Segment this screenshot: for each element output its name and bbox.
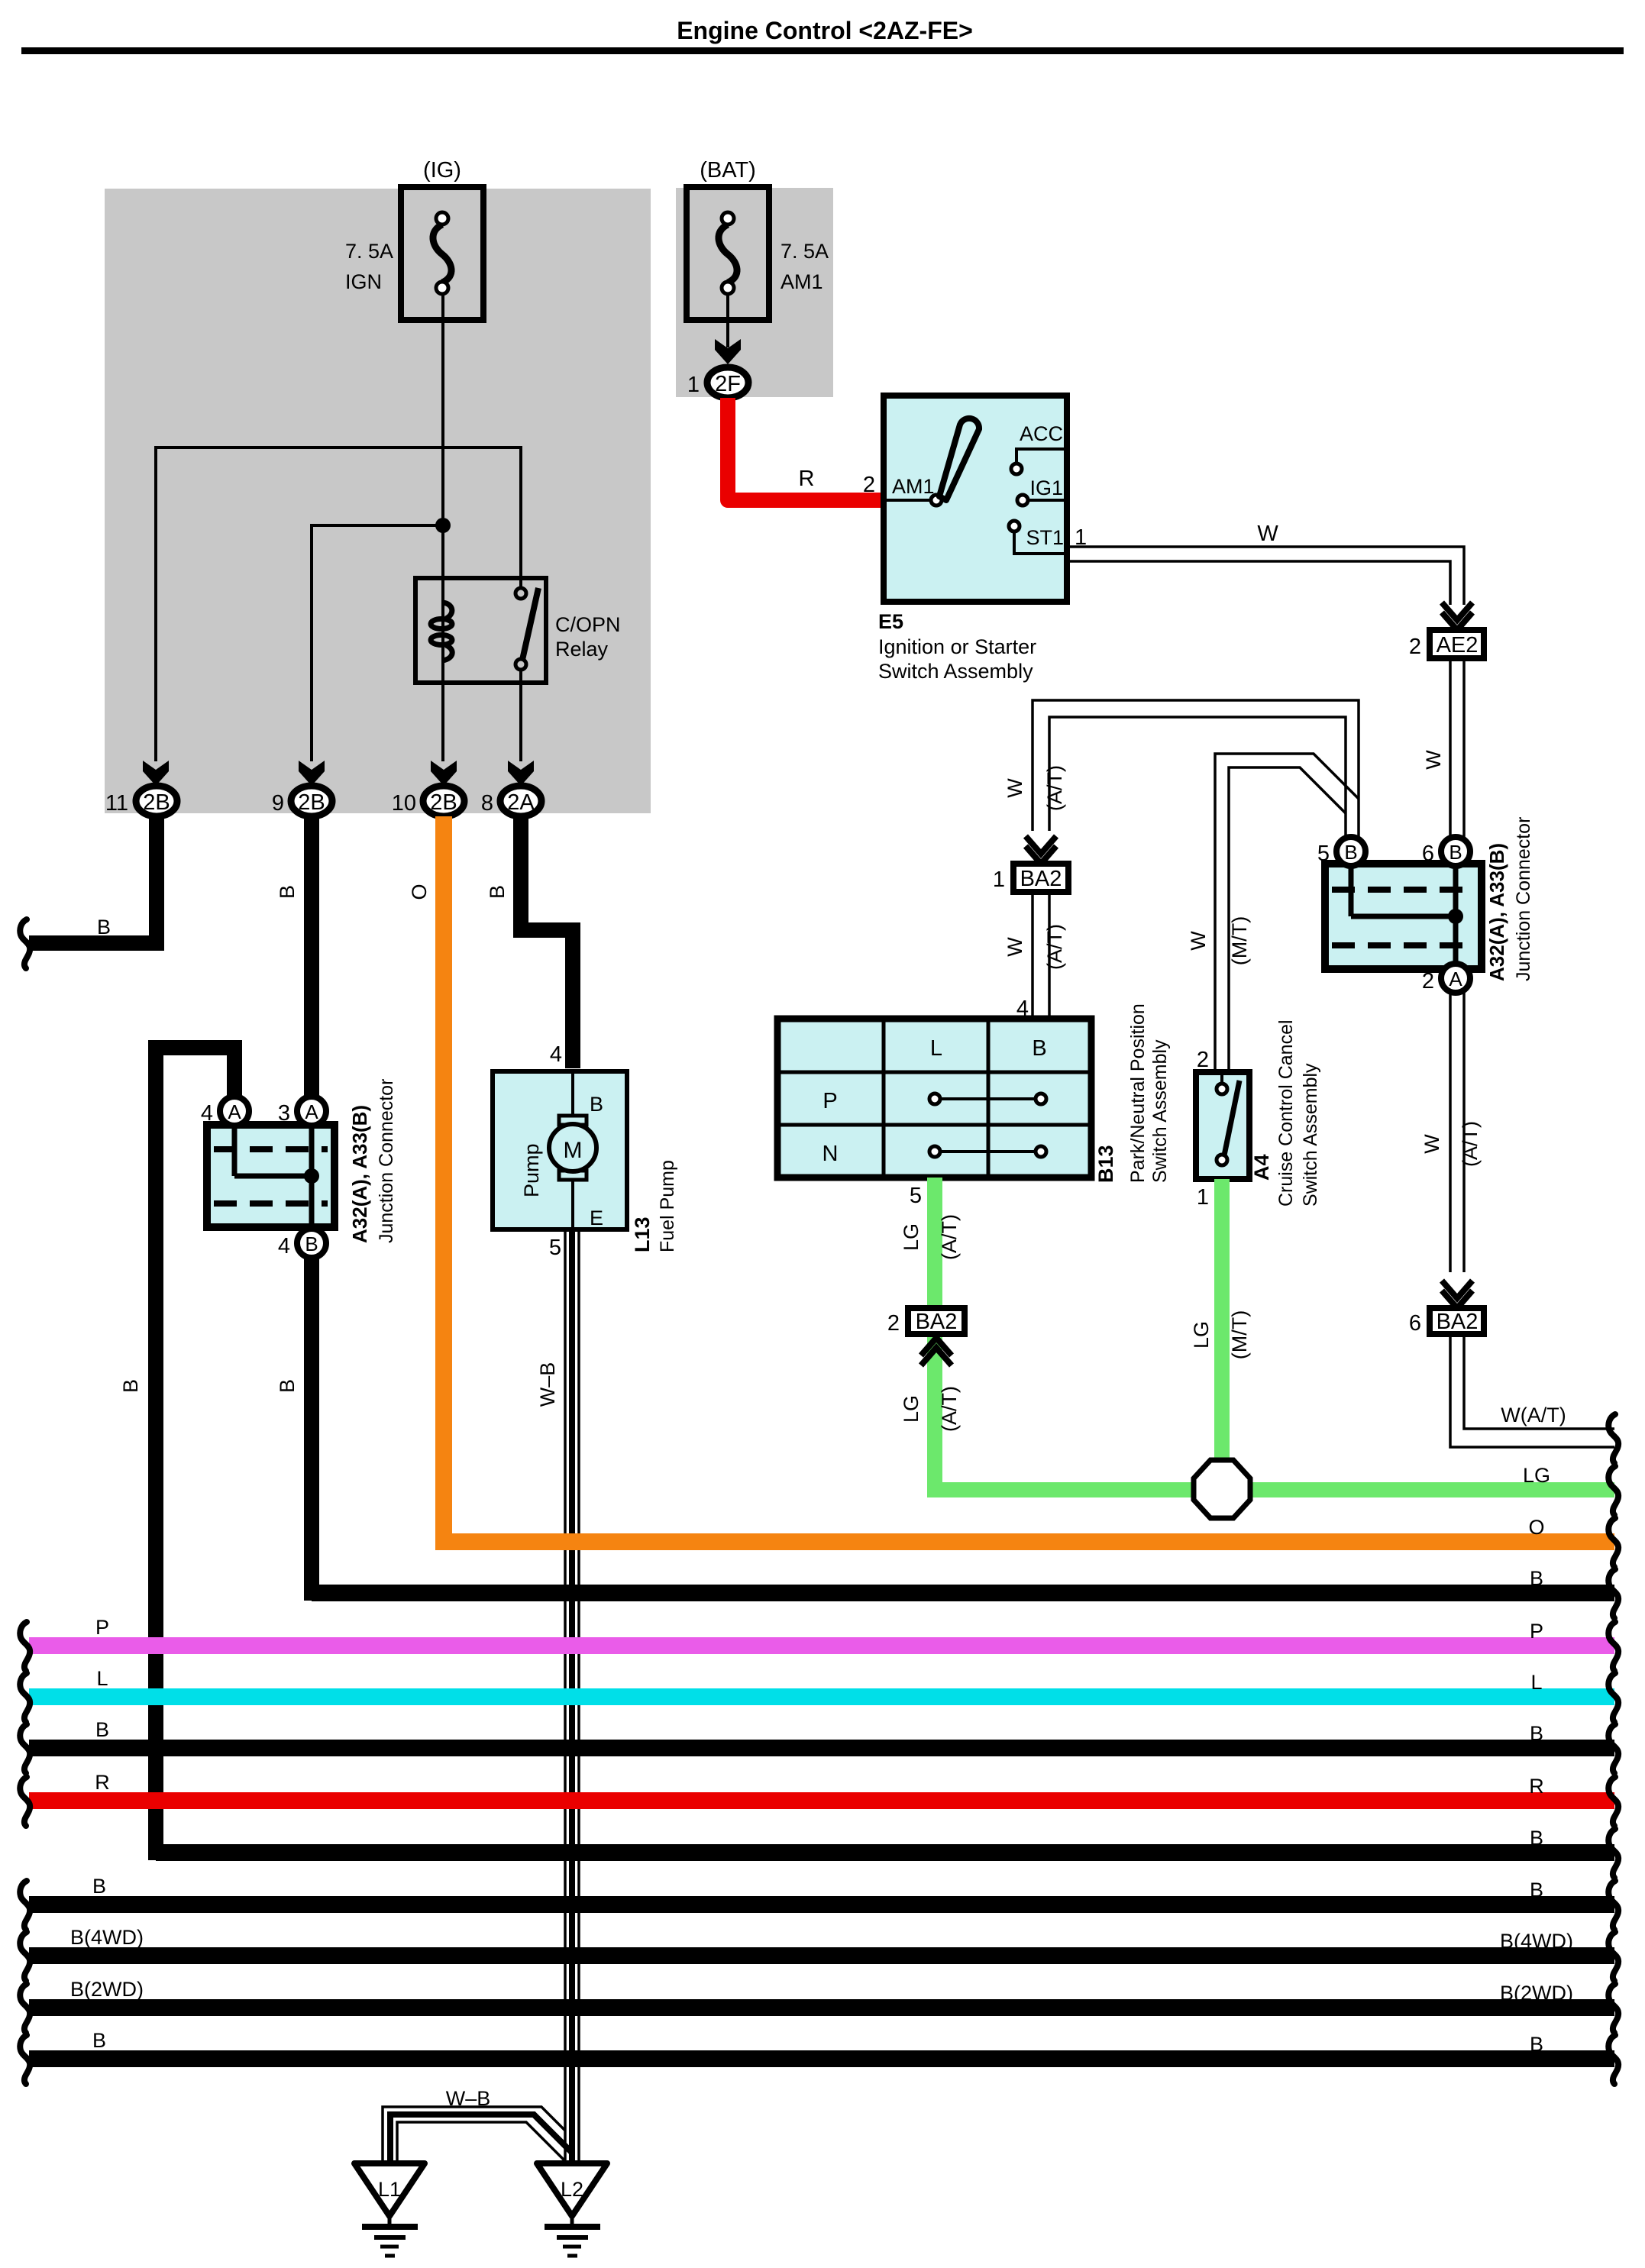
svg-text:B: B (1530, 1827, 1543, 1850)
svg-text:W: W (1420, 1134, 1443, 1154)
bus wire B(4WD) (29, 1947, 1614, 1964)
wire B: 8-2A down to fuel pump pin 4 (521, 816, 573, 1068)
wire W(A/T): BA2-6 to right margin (1450, 1334, 1614, 1447)
svg-text:O: O (408, 884, 431, 900)
wire B: junction 4A over and down (vertical) (156, 1048, 234, 1860)
svg-text:B: B (590, 1093, 603, 1116)
pin 4 B (297, 1229, 326, 1258)
connector 11 2B (136, 786, 177, 816)
svg-text:2F: 2F (715, 372, 741, 396)
svg-text:(BAT): (BAT) (700, 158, 756, 183)
wire break curl left y=2155 (20, 1622, 30, 1671)
svg-text:BA2: BA2 (1437, 1310, 1479, 1334)
svg-text:B: B (1344, 841, 1357, 864)
svg-text:B(4WD): B(4WD) (70, 1926, 144, 1949)
svg-text:4: 4 (201, 1101, 213, 1126)
svg-text:A32(A), A33(B): A32(A), A33(B) (1485, 843, 1508, 981)
svg-text:R: R (799, 467, 815, 491)
svg-text:ACC: ACC (1020, 422, 1063, 445)
arrow into 10-2B (431, 761, 457, 786)
svg-text:W: W (1187, 931, 1210, 951)
svg-text:2B: 2B (430, 790, 457, 815)
wire break curl (left, B) (20, 919, 30, 968)
wire W: A4 pin2 up and over to 5B (white pair, M/T) (1215, 754, 1359, 1072)
chevron into BA2-1 (1026, 836, 1056, 864)
svg-text:L: L (930, 1036, 942, 1061)
wire W(A/T): 2A down to BA2-6 (1449, 993, 1452, 1272)
wire B: 11-2B to left margin (29, 816, 157, 943)
bus wire B(2WD) (29, 1999, 1614, 2016)
svg-text:LG: LG (900, 1395, 923, 1423)
svg-text:9: 9 (272, 791, 284, 816)
connector 2 AE2 (1430, 630, 1484, 658)
svg-text:1: 1 (687, 373, 700, 397)
pin 2 A (1441, 964, 1470, 993)
svg-text:E5: E5 (878, 610, 903, 633)
svg-text:AM1: AM1 (780, 270, 823, 293)
connector 1 BA2 (1013, 864, 1068, 892)
connector 1 2F (707, 367, 748, 398)
svg-text:B: B (92, 1875, 106, 1898)
svg-text:B: B (305, 1233, 318, 1255)
chevron into BA2-6 (1442, 1281, 1472, 1308)
wire O bus (horizontal) (444, 1533, 1614, 1550)
connector 10 2B (423, 786, 464, 816)
wire break curl right y=2019 (1608, 1518, 1618, 1567)
fuse IGN 7.5A (IG) (401, 187, 483, 320)
svg-text:(IG): (IG) (423, 158, 461, 183)
svg-text:B: B (1449, 841, 1462, 864)
svg-text:11: 11 (105, 791, 128, 816)
wire break curl left y=2629 (20, 1984, 30, 2033)
svg-text:O: O (1528, 1516, 1544, 1539)
svg-text:Switch Assembly: Switch Assembly (1149, 1039, 1171, 1183)
svg-text:7. 5A: 7. 5A (345, 240, 393, 263)
svg-text:10: 10 (392, 791, 416, 816)
wire LG bus (horizontal) (935, 1482, 1614, 1497)
wire W: ST1 to AE2 (white pair) (1067, 547, 1464, 605)
bus wire R (29, 1792, 1614, 1809)
wire break curl right y=2155 (1608, 1622, 1618, 1671)
svg-text:Park/Neutral Position: Park/Neutral Position (1127, 1003, 1149, 1183)
svg-text:IG1: IG1 (1029, 477, 1063, 499)
wire: 11-2B / relay switch net (156, 447, 521, 761)
wire break curl right y=1951 (1608, 1466, 1618, 1515)
svg-text:2A: 2A (507, 790, 535, 815)
svg-text:(A/T): (A/T) (1043, 924, 1066, 970)
svg-text:7. 5A: 7. 5A (780, 240, 829, 263)
svg-text:B: B (1530, 1722, 1543, 1745)
svg-text:(A/T): (A/T) (1043, 765, 1066, 811)
svg-text:6: 6 (1409, 1311, 1421, 1336)
svg-text:W–B: W–B (536, 1362, 559, 1407)
wire break curl left y=2561 (20, 1932, 30, 1981)
svg-text:IGN: IGN (345, 270, 382, 293)
svg-text:B: B (92, 2029, 106, 2052)
svg-text:B: B (95, 1718, 109, 1741)
svg-text:AE2: AE2 (1437, 633, 1479, 657)
svg-text:E: E (590, 1207, 603, 1229)
svg-text:LG: LG (900, 1223, 923, 1251)
svg-text:C/OPN: C/OPN (555, 613, 621, 636)
connector 6 BA2 (1430, 1308, 1484, 1334)
wire W: AE2 down to 6B (white pair) (1449, 658, 1452, 838)
ground L1 (354, 2163, 425, 2256)
svg-text:(M/T): (M/T) (1228, 916, 1251, 965)
wire break curl right y=2696 (1608, 2035, 1618, 2084)
svg-text:B: B (276, 1379, 299, 1393)
svg-text:4: 4 (278, 1234, 290, 1258)
wire break curl right y=2561 (1608, 1932, 1618, 1981)
bus wire B (8th) (29, 2050, 1614, 2067)
svg-text:2: 2 (1197, 1048, 1209, 1072)
svg-text:8: 8 (481, 791, 493, 816)
wire W: BA2-1 down to B13 pin 4 (1031, 892, 1034, 1019)
svg-text:L13: L13 (631, 1216, 654, 1252)
svg-text:LG: LG (1523, 1464, 1550, 1487)
arrow into 11-2B (143, 761, 169, 786)
wire: IG fuse down to relay coil and 10-2B (441, 294, 444, 761)
svg-text:2B: 2B (143, 790, 170, 815)
wire: branch to 9-2B (312, 525, 443, 761)
wire break curl right y=1883 (1608, 1414, 1618, 1463)
svg-text:Engine Control <2AZ-FE>: Engine Control <2AZ-FE> (677, 17, 973, 44)
ignition switch E5 (884, 396, 1067, 602)
bus wire B (5th) (29, 1896, 1614, 1913)
svg-text:R: R (1529, 1775, 1544, 1798)
svg-text:Switch Assembly: Switch Assembly (878, 660, 1033, 683)
wire break curl left y=2696 (20, 2035, 30, 2084)
svg-text:Cruise Control Cancel: Cruise Control Cancel (1275, 1019, 1297, 1207)
svg-text:W: W (1003, 937, 1026, 957)
wire break curl right y=2086 (1608, 1569, 1618, 1618)
svg-text:P: P (822, 1089, 837, 1113)
wire W: horizontal pair BA2-1 to 5B (1033, 700, 1359, 838)
svg-text:W: W (1257, 522, 1278, 546)
svg-text:W–B: W–B (446, 2087, 491, 2110)
svg-text:Fuel Pump: Fuel Pump (657, 1160, 678, 1252)
svg-text:B: B (276, 885, 299, 899)
pin 4 A (220, 1097, 249, 1126)
wire break curl right y=2494 (1608, 1881, 1618, 1930)
svg-text:B: B (119, 1379, 142, 1393)
fuse AM1 7.5A (BAT) (687, 187, 769, 320)
svg-text:A4: A4 (1250, 1154, 1273, 1181)
svg-text:ST1: ST1 (1026, 526, 1064, 549)
svg-text:(A/T): (A/T) (938, 1214, 961, 1260)
svg-text:A32(A), A33(B): A32(A), A33(B) (348, 1105, 371, 1243)
svg-text:B(2WD): B(2WD) (1500, 1982, 1573, 2005)
svg-text:B(2WD): B(2WD) (70, 1978, 144, 2001)
svg-text:AM1: AM1 (892, 475, 935, 498)
svg-text:Ignition or Starter: Ignition or Starter (878, 635, 1036, 658)
svg-text:(A/T): (A/T) (1459, 1121, 1482, 1167)
svg-text:2B: 2B (298, 790, 325, 815)
wire break curl right y=2426 (1608, 1829, 1618, 1878)
chevron out of BA2-2 (pointing up) (921, 1338, 952, 1365)
wire O: 10-2B down (vertical) (435, 816, 452, 1550)
svg-text:1: 1 (993, 867, 1005, 892)
wire break curl right y=2222 (1608, 1673, 1618, 1722)
svg-text:A: A (228, 1100, 241, 1123)
splice octagon (1194, 1460, 1250, 1518)
arrow into 8-2A (508, 761, 534, 786)
svg-text:B13: B13 (1094, 1145, 1117, 1183)
svg-text:W(A/T): W(A/T) (1501, 1404, 1566, 1426)
svg-text:B: B (1530, 2033, 1543, 2056)
wire B bus from 4B (horizontal) (312, 1585, 1614, 1601)
wire break curl left y=2358 (20, 1777, 30, 1826)
svg-text:(A/T): (A/T) (938, 1386, 961, 1432)
pin 6 B (1441, 837, 1470, 866)
ground L2 (537, 2163, 607, 2256)
bus wire L (29, 1688, 1614, 1705)
cruise control cancel switch A4 (1196, 1072, 1249, 1179)
svg-text:P: P (1530, 1620, 1543, 1643)
junction connector A32(A),A33(B) left (207, 1125, 334, 1227)
wire W-B: fuel pump pin 5 down to grounds (564, 1229, 567, 2163)
wire B bus from 4A (horizontal) (156, 1844, 1614, 1861)
wire LG (A/T): B13 pin5 down (vertical) (927, 1178, 942, 1497)
svg-text:1: 1 (1197, 1185, 1209, 1210)
svg-text:M: M (564, 1138, 583, 1163)
wire break curl right y=2358 (1608, 1777, 1618, 1826)
wire break curl right y=2629 (1608, 1984, 1618, 2033)
connector 8 2A (500, 786, 541, 816)
svg-text:(M/T): (M/T) (1228, 1310, 1251, 1359)
svg-text:W: W (1422, 750, 1445, 770)
wire LG (M/T): A4 pin1 down to splice (1214, 1179, 1230, 1474)
gray harness block (main) (105, 189, 651, 813)
svg-text:5: 5 (910, 1184, 922, 1208)
svg-text:3: 3 (278, 1101, 290, 1126)
wire break curl left y=2494 (20, 1881, 30, 1930)
svg-text:N: N (822, 1142, 839, 1166)
C/OPN relay (415, 578, 546, 683)
svg-text:2: 2 (887, 1311, 900, 1336)
svg-text:B: B (1530, 1567, 1543, 1590)
svg-text:BA2: BA2 (916, 1310, 958, 1334)
svg-text:B: B (486, 885, 509, 899)
wire B: junction 4B down (vertical) (304, 1258, 319, 1601)
svg-text:B(4WD): B(4WD) (1500, 1930, 1573, 1953)
svg-text:Junction Connector: Junction Connector (376, 1079, 397, 1243)
svg-text:B: B (1032, 1036, 1046, 1061)
svg-text:BA2: BA2 (1020, 867, 1062, 891)
svg-text:2: 2 (1409, 635, 1421, 659)
pin 3 A (297, 1097, 326, 1126)
svg-text:4: 4 (550, 1042, 562, 1067)
wire break curl left y=2222 (20, 1673, 30, 1722)
svg-text:6: 6 (1422, 842, 1434, 866)
svg-text:W: W (1003, 778, 1026, 798)
wire break curl left y=2289 (20, 1724, 30, 1773)
svg-text:5: 5 (549, 1236, 561, 1260)
svg-text:R: R (95, 1771, 110, 1794)
svg-text:2: 2 (1422, 969, 1434, 993)
svg-text:B: B (1530, 1879, 1543, 1901)
svg-text:A: A (1449, 968, 1462, 990)
svg-text:L2: L2 (561, 2178, 583, 2201)
wire break curl right y=2289 (1608, 1724, 1618, 1773)
svg-text:L: L (96, 1667, 108, 1690)
junction connector A32(A),A33(B) right (1325, 864, 1482, 969)
svg-text:L1: L1 (378, 2178, 401, 2201)
wire: relay switch to 8-2A (519, 670, 522, 761)
fuel pump L13 (493, 1071, 627, 1229)
node: junction dot IG branch (435, 518, 451, 533)
svg-text:Relay: Relay (555, 638, 609, 661)
bus wire P (29, 1637, 1614, 1654)
svg-text:Junction Connector: Junction Connector (1513, 817, 1534, 981)
chevron into AE2 (1442, 603, 1472, 630)
wire W-B: branch to L1 (383, 2107, 565, 2163)
svg-text:LG: LG (1190, 1321, 1213, 1349)
bus wire B (3rd) (29, 1740, 1614, 1756)
connector 9 2B (291, 786, 332, 816)
svg-text:B: B (97, 916, 111, 939)
arrow into 9-2B (299, 761, 325, 786)
title rule (21, 47, 1624, 54)
svg-text:Pump: Pump (520, 1143, 543, 1197)
pin 5 B (1336, 837, 1365, 866)
svg-text:5: 5 (1317, 842, 1330, 866)
svg-text:P: P (95, 1616, 109, 1639)
wire: BAT fuse to 2F (726, 294, 729, 347)
svg-text:Switch Assembly: Switch Assembly (1300, 1063, 1321, 1207)
wire R (red) 2F to E5 AM1 (728, 398, 884, 500)
svg-text:L: L (1530, 1671, 1542, 1694)
svg-text:A: A (305, 1100, 318, 1123)
gray harness block (BAT) (676, 188, 833, 397)
park/neutral position switch B13 (777, 1019, 1091, 1178)
arrow into 2F (715, 339, 741, 364)
svg-text:2: 2 (863, 473, 875, 497)
wire B: 9-2B down to junction 3A (304, 816, 319, 1097)
connector 2 BA2 (908, 1308, 965, 1334)
